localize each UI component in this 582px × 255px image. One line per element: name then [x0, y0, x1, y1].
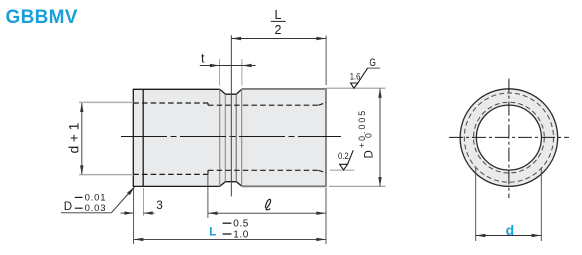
svg-text:d: d	[506, 222, 515, 238]
svg-text:t: t	[201, 52, 205, 66]
t dimension line	[200, 65, 256, 67]
d+1 extension line bottom	[79, 174, 133, 176]
svg-text:1.0: 1.0	[233, 229, 249, 240]
end view vertical centerline	[508, 79, 510, 198]
leader arrowhead	[127, 187, 135, 196]
L/2 dimension line	[231, 38, 326, 40]
end view outer circle	[460, 89, 558, 187]
part body silhouette fill	[133, 89, 326, 186]
0.2 reference line	[330, 169, 355, 171]
label -0.5	[223, 222, 232, 224]
extension line x=326 bottom	[325, 188, 327, 244]
dimension 3 line left tail	[121, 212, 134, 214]
ell dimension line	[208, 212, 326, 214]
end view groove dashed circle	[464, 93, 553, 182]
part outline right portion (gray)	[242, 89, 326, 186]
svg-text:0.03: 0.03	[85, 203, 107, 214]
3 arrow left	[144, 211, 153, 214]
bore chamfer bottom right	[319, 170, 327, 173]
D arrow up	[378, 88, 381, 98]
extension line x=133.6	[133, 188, 135, 244]
d+1 arrow up	[80, 103, 83, 113]
t extension line left	[219, 59, 221, 86]
svg-text:2: 2	[275, 23, 282, 37]
bore d hidden line top	[208, 104, 319, 106]
L/2 arrow left	[232, 37, 242, 40]
D dimension line	[379, 89, 381, 187]
d+1 dimension line	[81, 103, 83, 174]
surface finish symbol 1.6 G	[351, 83, 358, 88]
t extension line right	[241, 59, 243, 86]
svg-text:0.5: 0.5	[233, 219, 249, 230]
groove root line x=225.3	[224, 94, 226, 182]
bore step bottom	[207, 170, 209, 174]
L dimension line	[134, 238, 326, 240]
svg-text:d+1: d+1	[65, 119, 81, 154]
groove edge line x=219.7	[219, 89, 221, 186]
end view counterbore dashed circle	[474, 102, 545, 173]
ell arrow left	[208, 212, 218, 215]
L arrow right	[316, 238, 326, 241]
dimension 3 line right tail	[144, 212, 155, 214]
d arrow right	[532, 234, 542, 237]
svg-text:0.2: 0.2	[338, 150, 349, 161]
bore d hidden line bottom	[208, 169, 319, 171]
svg-text:L: L	[275, 8, 282, 22]
svg-text:D: D	[364, 150, 376, 158]
side view centerline	[121, 136, 341, 138]
label D +0.005/0 rotated	[357, 109, 376, 159]
label -1.0	[223, 233, 232, 235]
extension line x=143.5	[143, 188, 145, 216]
D extension line bottom	[329, 185, 386, 187]
d extension line right	[540, 168, 542, 242]
bore d+1 hidden line top	[133, 102, 208, 104]
groove root line x=236.2	[235, 94, 237, 182]
svg-text:D: D	[64, 201, 72, 213]
svg-text:0.01: 0.01	[85, 192, 107, 203]
svg-text:0: 0	[364, 133, 374, 138]
leader D-0.01/-0.03	[111, 187, 134, 213]
svg-text:G: G	[369, 57, 376, 69]
groove edge line x=241.7	[241, 89, 243, 186]
svg-text:3: 3	[156, 198, 163, 212]
bore step top	[207, 103, 209, 105]
extension line x=207.9	[207, 172, 209, 219]
surface finish symbol 0.2	[340, 164, 348, 170]
d extension line left	[475, 168, 477, 242]
L/2 extension line left (groove center)	[230, 35, 232, 196]
svg-text:L: L	[209, 226, 216, 238]
D extension line top	[326, 87, 385, 89]
bore d+1 hidden line bottom	[133, 173, 208, 175]
svg-text:GBBMV: GBBMV	[6, 7, 78, 28]
L arrow left	[134, 238, 144, 241]
3 arrow right	[124, 211, 133, 214]
svg-text:+0.005: +0.005	[357, 109, 367, 148]
ell arrow right	[316, 212, 326, 215]
end view bore circle	[476, 105, 541, 170]
t arrow pointing left	[242, 64, 252, 67]
L/2 arrow right	[316, 37, 326, 40]
collar divider line x=143.2	[142, 89, 144, 186]
label ell (script l)	[265, 199, 270, 210]
part outline left portion (black) with groove	[133, 89, 242, 186]
D arrow down	[378, 177, 381, 187]
d dimension line	[476, 235, 541, 237]
d arrow left	[476, 234, 486, 237]
end view horizontal centerline	[449, 136, 569, 138]
d+1 arrow down	[80, 165, 83, 175]
t arrow pointing right	[210, 64, 220, 67]
L/2 extension line right	[325, 36, 327, 86]
bore chamfer top right	[319, 103, 327, 106]
d+1 extension line top	[79, 101, 133, 103]
svg-text:1.6: 1.6	[350, 71, 361, 82]
